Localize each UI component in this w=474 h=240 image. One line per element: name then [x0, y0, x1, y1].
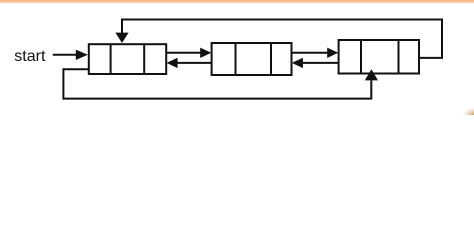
- box 1 divider prev/data: [110, 44, 112, 74]
- node box 3: [339, 40, 419, 74]
- box 1 divider data/next: [143, 44, 145, 74]
- box 3 divider prev/data: [360, 40, 362, 74]
- arrowhead: bottom loop up into box3 bottom: [365, 69, 378, 80]
- box 2 divider data/next: [270, 43, 272, 75]
- wire: start arrow shaft: [53, 54, 77, 56]
- box 3 divider data/next: [398, 40, 400, 74]
- wire: bottom loop from first node to last node: [63, 69, 371, 98]
- box 2 divider prev/data: [235, 43, 237, 75]
- arrowhead: prev into box1: [167, 58, 178, 68]
- arrowhead: prev into box2: [292, 58, 303, 68]
- wire: prev arrow box2 to box1 shaft: [176, 62, 212, 64]
- wire: top loop from last node to first node: [122, 20, 442, 58]
- wire: next arrow box1 to box2 shaft: [166, 52, 202, 54]
- wire: prev arrow box3 to box2 shaft: [301, 62, 339, 64]
- arrowhead: top loop down into box1 top: [115, 33, 128, 43]
- svg-text:start: start: [14, 48, 46, 65]
- wire: next arrow box2 to box3 shaft: [292, 52, 330, 54]
- node box 2: [212, 43, 292, 75]
- arrowhead: next into box3: [327, 48, 338, 58]
- node box 1 (start node): [89, 44, 166, 74]
- arrowhead: start into box1: [76, 50, 88, 60]
- top orange bar: [0, 0, 474, 2]
- arrowhead: next into box2: [200, 48, 211, 58]
